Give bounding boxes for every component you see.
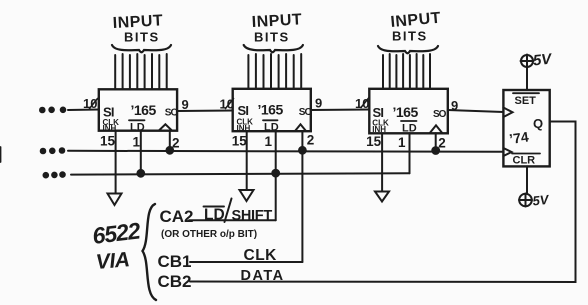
svg-text:9: 9 xyxy=(451,98,458,113)
svg-text:SHIFT: SHIFT xyxy=(232,208,273,224)
svg-text:VIA: VIA xyxy=(95,248,130,274)
svg-text:1: 1 xyxy=(265,134,273,149)
svg-text:10: 10 xyxy=(355,96,369,111)
svg-text:INPUT: INPUT xyxy=(251,11,302,31)
svg-text:INH: INH xyxy=(372,125,386,134)
svg-text:6522: 6522 xyxy=(91,217,142,249)
svg-text:2: 2 xyxy=(172,136,180,151)
svg-text:(OR OTHER o/p BIT): (OR OTHER o/p BIT) xyxy=(161,229,257,240)
svg-text:SO: SO xyxy=(299,107,313,118)
svg-text:LD: LD xyxy=(204,207,225,224)
svg-text:LD: LD xyxy=(402,123,417,135)
svg-text:INH: INH xyxy=(237,124,251,133)
svg-text:CB1: CB1 xyxy=(158,252,192,271)
svg-text:’165: ’165 xyxy=(131,102,157,118)
svg-text:SI: SI xyxy=(238,103,249,118)
svg-text:’165: ’165 xyxy=(393,104,419,120)
svg-text:LD: LD xyxy=(264,122,279,134)
svg-text:5V: 5V xyxy=(532,50,554,69)
svg-text:DATA: DATA xyxy=(241,268,285,284)
svg-text:2: 2 xyxy=(307,133,315,148)
svg-text:1: 1 xyxy=(133,135,141,150)
svg-text:15: 15 xyxy=(100,134,116,149)
svg-text:Q: Q xyxy=(533,116,543,131)
svg-text:BITS: BITS xyxy=(254,30,290,45)
svg-text:CLK: CLK xyxy=(244,247,278,264)
svg-text:SO: SO xyxy=(433,109,447,120)
svg-text:INH: INH xyxy=(103,124,117,133)
svg-text:9: 9 xyxy=(315,96,322,111)
svg-text:’165: ’165 xyxy=(258,102,284,118)
svg-text:CA2: CA2 xyxy=(160,207,194,226)
svg-text:10: 10 xyxy=(83,96,97,111)
svg-text:1: 1 xyxy=(398,135,406,150)
svg-text:15: 15 xyxy=(232,134,248,149)
svg-text:10: 10 xyxy=(220,97,234,112)
svg-text:SET: SET xyxy=(515,95,537,107)
svg-text:BITS: BITS xyxy=(392,29,428,44)
svg-text:BITS: BITS xyxy=(124,30,160,45)
svg-text:15: 15 xyxy=(366,134,382,149)
svg-text:9: 9 xyxy=(182,97,189,112)
svg-text:5V: 5V xyxy=(532,192,551,209)
svg-text:SO: SO xyxy=(165,108,179,119)
svg-text:’74: ’74 xyxy=(508,128,530,147)
svg-text:CLR: CLR xyxy=(513,155,536,167)
svg-text:LD: LD xyxy=(130,122,145,134)
svg-text:CB2: CB2 xyxy=(158,272,192,291)
svg-text:2: 2 xyxy=(438,136,446,151)
